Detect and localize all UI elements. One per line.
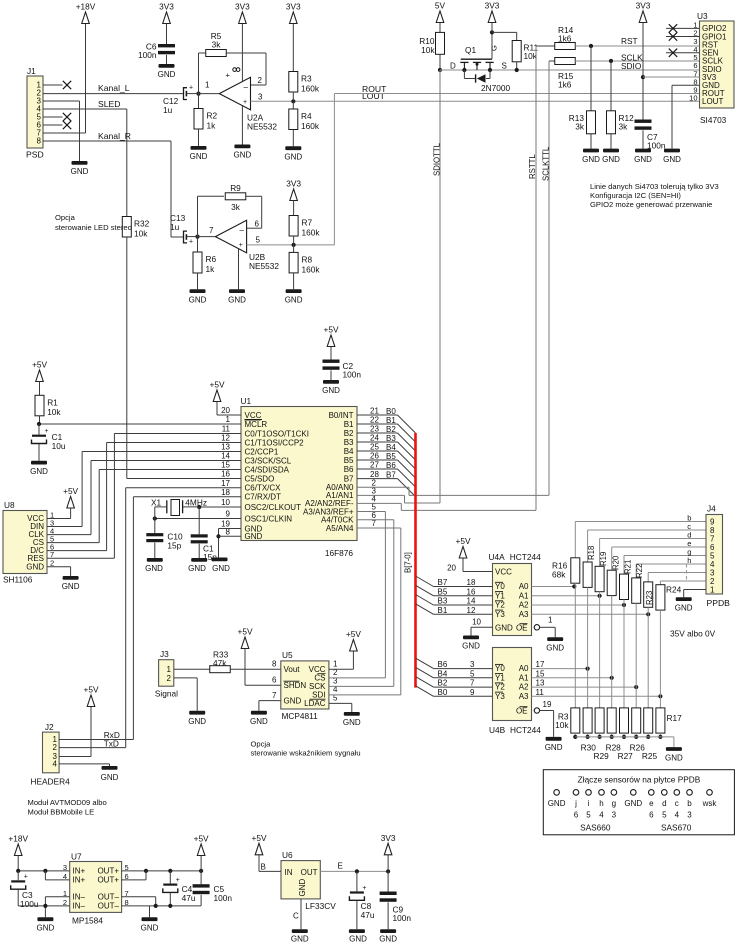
svg-text:20: 20: [221, 406, 230, 415]
svg-text:B2: B2: [386, 425, 396, 434]
svg-text:B5: B5: [438, 587, 448, 596]
svg-text:14: 14: [467, 597, 476, 606]
svg-text:11: 11: [536, 688, 545, 697]
svg-text:LOUT: LOUT: [702, 97, 723, 106]
svg-text:+5V: +5V: [63, 486, 78, 496]
svg-text:TxD: TxD: [104, 738, 119, 748]
svg-text:+: +: [45, 428, 49, 435]
svg-text:15p: 15p: [167, 541, 181, 551]
svg-text:GND: GND: [250, 717, 268, 726]
svg-text:68k: 68k: [552, 570, 566, 580]
svg-text:1k: 1k: [206, 264, 216, 274]
svg-text:25: 25: [370, 443, 379, 452]
svg-text:+: +: [189, 85, 193, 92]
svg-text:GND: GND: [624, 799, 642, 808]
svg-text:RSTTL: RSTTL: [528, 154, 537, 179]
svg-text:10: 10: [472, 618, 481, 627]
svg-text:GND: GND: [284, 697, 302, 706]
svg-text:GND: GND: [188, 564, 206, 573]
svg-text:+18V: +18V: [8, 834, 28, 844]
svg-text:U6: U6: [282, 850, 293, 860]
svg-text:GND: GND: [71, 167, 89, 176]
svg-text:4MHz: 4MHz: [185, 498, 207, 508]
svg-text:GND: GND: [322, 386, 340, 395]
svg-text:B2: B2: [344, 429, 354, 438]
svg-text:10: 10: [221, 498, 230, 507]
svg-text:22: 22: [370, 416, 379, 425]
svg-text:19: 19: [543, 700, 552, 709]
svg-text:GND: GND: [30, 467, 48, 476]
svg-text:1: 1: [548, 616, 553, 625]
svg-text:9: 9: [226, 510, 231, 519]
svg-text:IN+: IN+: [73, 876, 86, 885]
svg-text:7: 7: [272, 691, 277, 700]
svg-text:4: 4: [675, 811, 680, 820]
svg-text:2N7000: 2N7000: [481, 83, 510, 93]
svg-text:160k: 160k: [302, 264, 321, 274]
svg-text:GPIO2 może generować przerwani: GPIO2 może generować przerwanie: [590, 200, 712, 209]
svg-text:MP1584: MP1584: [72, 916, 103, 926]
svg-text:+5V: +5V: [238, 627, 253, 637]
svg-text:+: +: [189, 239, 193, 246]
svg-text:+5V: +5V: [32, 360, 47, 370]
svg-text:LDAC: LDAC: [304, 699, 326, 708]
svg-text:Złącze sensorów na płytce PPDB: Złącze sensorów na płytce PPDB: [578, 775, 701, 785]
svg-text:–: –: [240, 226, 245, 235]
svg-text:3V3: 3V3: [159, 2, 174, 12]
svg-text:D: D: [450, 62, 456, 71]
svg-text:11: 11: [222, 425, 231, 434]
svg-text:Kanal_L: Kanal_L: [98, 83, 130, 93]
svg-text:c: c: [675, 799, 679, 808]
svg-text:h: h: [687, 556, 691, 565]
svg-text:Y3: Y3: [495, 692, 505, 701]
svg-text:160k: 160k: [301, 84, 320, 94]
svg-text:R18: R18: [587, 546, 596, 560]
svg-text:4: 4: [599, 811, 604, 820]
svg-text:U5: U5: [282, 650, 293, 660]
svg-text:GND: GND: [284, 153, 302, 162]
svg-text:HCT244: HCT244: [510, 725, 541, 735]
svg-text:OSC2/CLKOUT: OSC2/CLKOUT: [245, 503, 302, 512]
svg-text:B4: B4: [344, 447, 354, 456]
svg-text:GND: GND: [675, 604, 693, 613]
svg-text:+5V: +5V: [456, 536, 471, 546]
svg-text:+: +: [239, 242, 243, 249]
svg-text:+5V: +5V: [346, 629, 361, 639]
svg-text:3: 3: [258, 93, 263, 102]
svg-text:G: G: [490, 45, 499, 51]
svg-text:R4: R4: [301, 111, 312, 121]
svg-text:J2: J2: [45, 722, 54, 732]
svg-text:GND: GND: [462, 642, 480, 651]
svg-text:Q1: Q1: [465, 45, 476, 55]
svg-text:B7: B7: [386, 470, 396, 479]
svg-text:100n: 100n: [138, 50, 157, 60]
svg-text:j: j: [574, 799, 577, 808]
svg-text:R1: R1: [47, 397, 58, 407]
svg-text:100n: 100n: [214, 893, 233, 903]
svg-text:B4: B4: [386, 443, 396, 452]
svg-text:Y1: Y1: [495, 591, 505, 600]
svg-text:B0: B0: [386, 407, 396, 416]
svg-text:GND: GND: [285, 295, 303, 304]
svg-text:SI4703: SI4703: [700, 115, 727, 125]
svg-text:sterowanie LED stereo: sterowanie LED stereo: [55, 223, 132, 232]
svg-text:2: 2: [53, 743, 58, 752]
svg-text:IN+: IN+: [73, 867, 86, 876]
svg-text:NE5532: NE5532: [247, 122, 277, 132]
svg-text:GND: GND: [37, 924, 55, 933]
svg-text:7: 7: [470, 679, 475, 688]
svg-text:23: 23: [370, 425, 379, 434]
svg-text:A1: A1: [519, 591, 529, 600]
svg-text:–: –: [244, 83, 249, 92]
svg-text:A0: A0: [519, 664, 529, 673]
svg-text:+: +: [24, 874, 28, 881]
svg-text:e: e: [649, 799, 654, 808]
svg-text:C4/SDI/SDA: C4/SDI/SDA: [245, 465, 290, 474]
svg-text:GND: GND: [663, 155, 681, 164]
svg-text:Kanal_R: Kanal_R: [98, 131, 131, 141]
svg-text:GND: GND: [495, 624, 513, 633]
svg-text:B2: B2: [438, 679, 448, 688]
svg-text:3V3: 3V3: [381, 833, 396, 843]
svg-text:U4B: U4B: [489, 725, 506, 735]
svg-text:7: 7: [372, 519, 377, 528]
svg-text:C2/CCP1: C2/CCP1: [245, 447, 279, 456]
svg-text:B1: B1: [386, 416, 396, 425]
svg-text:160k: 160k: [302, 228, 321, 238]
svg-text:b: b: [687, 799, 692, 808]
svg-text:160k: 160k: [301, 121, 320, 131]
svg-text:3: 3: [470, 660, 475, 669]
svg-text:6: 6: [649, 811, 654, 820]
svg-text:OUT+: OUT+: [97, 867, 119, 876]
svg-text:3V3: 3V3: [235, 2, 250, 12]
svg-text:3: 3: [612, 811, 617, 820]
svg-text:g: g: [612, 799, 616, 808]
svg-text:B6: B6: [344, 465, 354, 474]
svg-text:LF33CV: LF33CV: [305, 901, 336, 911]
svg-text:R17: R17: [667, 713, 683, 723]
svg-text:15: 15: [221, 461, 230, 470]
svg-text:MCLR: MCLR: [245, 420, 268, 429]
svg-text:12: 12: [467, 606, 476, 615]
svg-text:GND: GND: [291, 935, 309, 944]
svg-text:+: +: [226, 71, 231, 80]
svg-text:Y2: Y2: [495, 683, 505, 692]
svg-text:B5: B5: [386, 452, 396, 461]
svg-text:GND: GND: [141, 924, 159, 933]
svg-text:35V albo 0V: 35V albo 0V: [670, 629, 716, 639]
svg-text:OUT: OUT: [301, 868, 318, 877]
svg-text:C5/SDO: C5/SDO: [245, 474, 275, 483]
svg-text:R25: R25: [642, 751, 658, 761]
svg-text:17: 17: [221, 479, 230, 488]
svg-text:47u: 47u: [182, 893, 196, 903]
svg-text:2: 2: [258, 76, 263, 85]
svg-text:OUT–: OUT–: [98, 902, 120, 911]
svg-text:Y1: Y1: [495, 673, 505, 682]
svg-text:GND: GND: [298, 879, 307, 897]
svg-text:21: 21: [370, 407, 379, 416]
svg-text:IN–: IN–: [73, 902, 86, 911]
svg-text:5: 5: [470, 669, 475, 678]
svg-text:R8: R8: [302, 254, 313, 264]
svg-text:OE: OE: [516, 707, 528, 716]
svg-text:IN–: IN–: [73, 893, 86, 902]
svg-text:S: S: [502, 62, 507, 71]
svg-text:GND: GND: [545, 743, 563, 752]
svg-text:+: +: [176, 877, 180, 884]
svg-text:Opcja: Opcja: [55, 213, 76, 222]
svg-text:GND: GND: [548, 799, 566, 808]
svg-text:sterowanie wskaźnikiem sygnału: sterowanie wskaźnikiem sygnału: [251, 749, 361, 758]
svg-text:3k: 3k: [231, 202, 241, 212]
svg-text:U4A: U4A: [489, 552, 506, 562]
svg-text:A1: A1: [519, 673, 529, 682]
svg-text:Y2: Y2: [495, 601, 505, 610]
svg-text:HEADER4: HEADER4: [31, 777, 71, 787]
svg-text:U3: U3: [697, 11, 708, 21]
svg-text:3V3: 3V3: [286, 2, 301, 12]
svg-text:h: h: [599, 799, 603, 808]
svg-text:Linie danych Si4703 tolerują t: Linie danych Si4703 tolerują tylko 3V3: [590, 182, 719, 191]
svg-text:OE: OE: [516, 624, 528, 633]
svg-text:3k: 3k: [575, 122, 585, 132]
svg-text:J4: J4: [707, 504, 716, 514]
svg-text:R23: R23: [645, 591, 654, 605]
svg-text:10k: 10k: [421, 45, 435, 55]
svg-text:A2: A2: [519, 683, 529, 692]
svg-text:wsk: wsk: [702, 799, 718, 808]
svg-text:Moduł AVTMOD09 albo: Moduł AVTMOD09 albo: [28, 798, 107, 807]
svg-text:GND: GND: [582, 155, 600, 164]
svg-text:47u: 47u: [361, 910, 375, 920]
svg-text:1: 1: [710, 585, 715, 594]
svg-text:2: 2: [167, 674, 172, 683]
svg-text:GND: GND: [379, 935, 397, 944]
svg-text:B3: B3: [386, 434, 396, 443]
svg-text:ROUT: ROUT: [362, 84, 387, 94]
svg-text:GND: GND: [62, 582, 80, 591]
svg-text:C0/T1OSO/T1CKI: C0/T1OSO/T1CKI: [245, 429, 309, 438]
svg-text:+5V: +5V: [194, 834, 209, 844]
svg-text:GND: GND: [212, 564, 230, 573]
svg-text:9: 9: [470, 688, 475, 697]
svg-text:B7: B7: [438, 578, 448, 587]
svg-text:10: 10: [689, 94, 697, 103]
svg-text:R21: R21: [624, 560, 633, 574]
svg-text:B1: B1: [344, 420, 354, 429]
svg-text:B0: B0: [438, 688, 448, 697]
svg-text:3: 3: [687, 811, 692, 820]
svg-text:A3: A3: [519, 692, 529, 701]
svg-text:18: 18: [221, 488, 230, 497]
svg-text:GND: GND: [189, 295, 207, 304]
svg-text:3V3: 3V3: [485, 1, 500, 11]
svg-text:A5/AN4: A5/AN4: [326, 524, 354, 533]
svg-text:B4: B4: [438, 669, 448, 678]
svg-text:R2: R2: [207, 111, 218, 121]
svg-text:B5: B5: [344, 456, 354, 465]
svg-text:10k: 10k: [134, 229, 148, 239]
svg-text:C1/T1OSI/CCP2: C1/T1OSI/CCP2: [245, 438, 305, 447]
svg-text:10k: 10k: [47, 407, 61, 417]
svg-text:OUT–: OUT–: [98, 893, 120, 902]
svg-text:PPDB: PPDB: [707, 598, 731, 608]
svg-text:3k: 3k: [619, 122, 629, 132]
svg-text:+5V: +5V: [324, 325, 339, 335]
svg-text:5V: 5V: [435, 1, 446, 11]
svg-text:R32: R32: [134, 219, 150, 229]
svg-text:C7/RX/DT: C7/RX/DT: [245, 493, 282, 502]
svg-text:16F876: 16F876: [325, 548, 354, 558]
svg-text:R20: R20: [611, 555, 620, 570]
svg-text:17: 17: [536, 660, 545, 669]
svg-text:10u: 10u: [52, 441, 66, 451]
svg-text:IN: IN: [285, 868, 293, 877]
svg-text:R19: R19: [599, 552, 608, 566]
svg-text:RST: RST: [621, 36, 638, 46]
svg-text:GND: GND: [228, 295, 246, 304]
svg-text:1u: 1u: [163, 105, 173, 115]
svg-text:B7: B7: [344, 474, 354, 483]
svg-text:Vout: Vout: [284, 665, 301, 674]
svg-text:+18V: +18V: [76, 2, 96, 12]
svg-text:E: E: [338, 862, 343, 871]
svg-text:d: d: [662, 799, 666, 808]
svg-text:6: 6: [272, 676, 277, 685]
svg-text:OSC1/CLKIN: OSC1/CLKIN: [245, 514, 293, 523]
svg-text:B6: B6: [438, 660, 448, 669]
svg-text:GND: GND: [349, 935, 367, 944]
svg-text:R3: R3: [301, 74, 312, 84]
svg-text:C6/TX/CX: C6/TX/CX: [245, 484, 282, 493]
svg-text:26: 26: [370, 452, 379, 461]
svg-text:5: 5: [662, 811, 667, 820]
svg-text:R22: R22: [635, 564, 644, 578]
svg-text:Y3: Y3: [495, 610, 505, 619]
svg-text:X1: X1: [151, 498, 162, 508]
svg-text:U1: U1: [241, 396, 252, 406]
svg-text:Opcja: Opcja: [251, 740, 272, 749]
svg-text:7: 7: [209, 226, 214, 235]
svg-text:Y0: Y0: [495, 582, 505, 591]
svg-text:GND: GND: [546, 643, 564, 652]
svg-text:HCT244: HCT244: [510, 552, 541, 562]
svg-text:GND: GND: [602, 155, 620, 164]
svg-text:OUT+: OUT+: [97, 876, 119, 885]
svg-text:3V3: 3V3: [286, 179, 301, 189]
svg-text:GND: GND: [145, 564, 163, 573]
svg-text:SHDN: SHDN: [284, 681, 307, 690]
svg-text:6: 6: [255, 220, 260, 229]
svg-text:PSD: PSD: [26, 150, 44, 160]
svg-text:R27: R27: [618, 751, 634, 761]
svg-text:GND: GND: [26, 562, 44, 571]
svg-text:+5V: +5V: [210, 380, 225, 390]
svg-text:NE5532: NE5532: [249, 261, 279, 271]
svg-text:+5V: +5V: [252, 833, 267, 843]
svg-text:A0: A0: [519, 582, 529, 591]
svg-text:SCLK: SCLK: [621, 53, 643, 63]
svg-text:J1: J1: [27, 66, 36, 76]
svg-text:1k6: 1k6: [558, 80, 572, 90]
svg-text:U8: U8: [4, 500, 15, 510]
svg-text:SH1106: SH1106: [3, 575, 33, 585]
svg-text:18: 18: [467, 578, 476, 587]
svg-text:B[7-0]: B[7-0]: [404, 552, 413, 573]
svg-text:13: 13: [221, 443, 230, 452]
svg-text:GND: GND: [188, 717, 206, 726]
svg-text:1k6: 1k6: [558, 34, 572, 44]
svg-text:C: C: [293, 912, 299, 921]
svg-text:J3: J3: [160, 649, 169, 659]
svg-text:5: 5: [256, 236, 261, 245]
svg-text:A3: A3: [519, 610, 529, 619]
svg-text:5: 5: [586, 811, 591, 820]
svg-text:SDIO: SDIO: [621, 61, 642, 71]
svg-text:12: 12: [221, 434, 230, 443]
svg-text:MCP4811: MCP4811: [282, 711, 319, 721]
svg-text:R9: R9: [230, 183, 241, 193]
svg-text:Moduł BBMobile LE: Moduł BBMobile LE: [28, 808, 95, 817]
svg-text:R29: R29: [593, 751, 609, 761]
svg-text:27: 27: [370, 461, 379, 470]
svg-text:GND: GND: [634, 155, 652, 164]
svg-text:VCC: VCC: [245, 411, 262, 420]
svg-text:SCLKTTL: SCLKTTL: [542, 146, 551, 181]
svg-text:16: 16: [221, 470, 230, 479]
svg-text:SLED: SLED: [98, 99, 120, 109]
svg-text:GND: GND: [343, 718, 361, 727]
svg-text:Y0: Y0: [495, 664, 505, 673]
svg-text:100u: 100u: [20, 899, 39, 909]
svg-text:GND: GND: [245, 532, 263, 541]
svg-text:VCC: VCC: [495, 568, 512, 577]
svg-text:B6: B6: [386, 461, 396, 470]
svg-text:R6: R6: [206, 254, 217, 264]
svg-text:16: 16: [467, 587, 476, 596]
svg-text:B0/INT: B0/INT: [329, 411, 354, 420]
svg-text:1k: 1k: [207, 121, 217, 131]
svg-text:100n: 100n: [343, 370, 362, 380]
svg-text:13: 13: [536, 679, 545, 688]
svg-text:SAS660: SAS660: [580, 823, 611, 833]
svg-text:3k: 3k: [212, 39, 222, 49]
svg-text:20: 20: [447, 564, 456, 573]
svg-text:+: +: [243, 99, 247, 106]
svg-text:B: B: [261, 863, 266, 872]
svg-text:+5V: +5V: [84, 685, 99, 695]
svg-text:1u: 1u: [170, 222, 180, 232]
svg-text:B3: B3: [344, 438, 354, 447]
svg-text:6: 6: [574, 811, 579, 820]
svg-text:Signal: Signal: [155, 689, 178, 699]
svg-text:4: 4: [53, 760, 58, 769]
svg-text:10k: 10k: [555, 720, 569, 730]
svg-text:GND: GND: [190, 152, 208, 161]
svg-text:47k: 47k: [213, 658, 227, 668]
svg-text:1: 1: [167, 665, 172, 674]
svg-text:8: 8: [37, 137, 42, 146]
svg-text:B1: B1: [438, 606, 448, 615]
svg-text:100n: 100n: [393, 913, 412, 923]
svg-text:15: 15: [536, 669, 545, 678]
svg-text:1: 1: [226, 415, 231, 424]
